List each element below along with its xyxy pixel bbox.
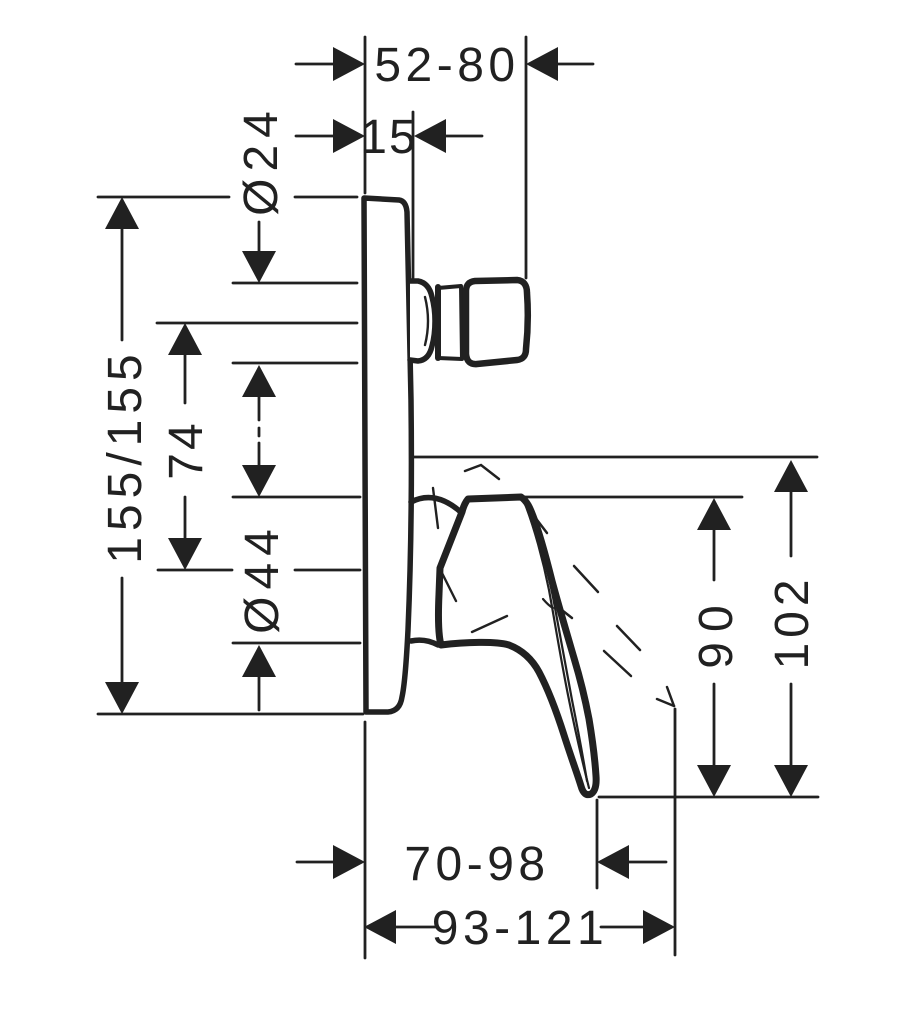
svg-text:93-121: 93-121: [432, 902, 608, 955]
svg-text:102: 102: [766, 574, 819, 669]
svg-text:70-98: 70-98: [404, 838, 549, 891]
svg-text:90: 90: [690, 595, 743, 668]
svg-text:155/155: 155/155: [99, 348, 152, 564]
svg-text:15: 15: [360, 111, 417, 164]
svg-text:Ø24: Ø24: [235, 104, 288, 216]
svg-text:Ø44: Ø44: [236, 522, 289, 634]
svg-text:52-80: 52-80: [374, 39, 519, 92]
svg-text:74: 74: [160, 420, 213, 479]
